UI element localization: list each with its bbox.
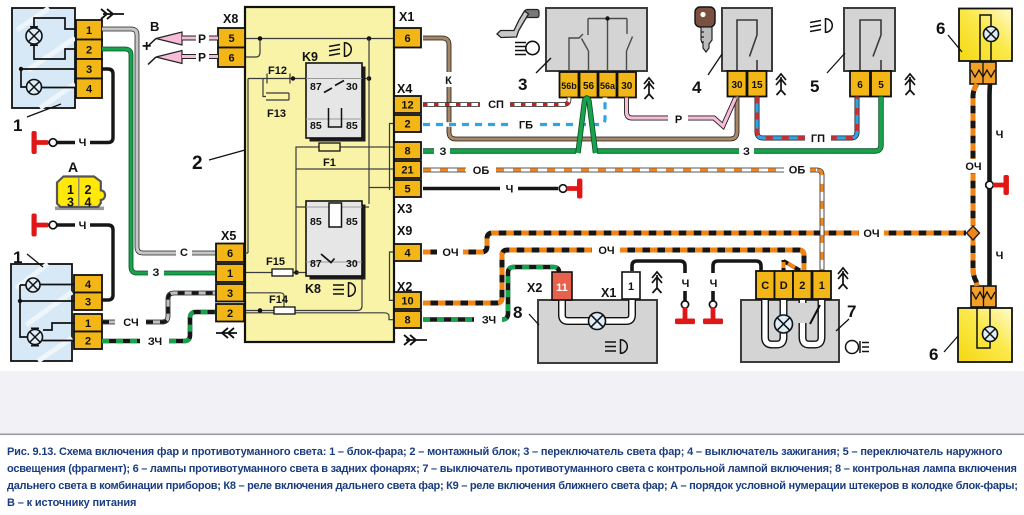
svg-text:1: 1 — [819, 280, 825, 292]
wire ZCh (X2-8 to lamp8 pin 11) — [423, 267, 559, 320]
wire GB white-blue (X4-2 to 56a) — [423, 98, 605, 125]
svg-text:Ч: Ч — [79, 137, 87, 149]
label Ch (ground headlamp1b) — [75, 218, 90, 232]
fog lamp in headlamp 1b — [26, 278, 40, 292]
svg-text:3: 3 — [85, 296, 91, 308]
ground switch 7 — [703, 301, 723, 324]
label OCh right trunk — [859, 226, 884, 240]
label 7 — [836, 302, 856, 331]
label SCh — [117, 315, 145, 329]
svg-text:Х1: Х1 — [399, 10, 414, 24]
svg-text:5: 5 — [810, 77, 819, 96]
svg-text:C: C — [761, 280, 769, 292]
label Ch X4-5 — [502, 182, 517, 196]
svg-text:6: 6 — [227, 248, 233, 260]
headlamp 1b internal wiring — [18, 285, 74, 341]
wire: fuse line F12 at y79 — [248, 74, 369, 84]
svg-text:Ч: Ч — [79, 220, 87, 232]
ground cluster — [675, 301, 695, 324]
svg-text:ЗЧ: ЗЧ — [148, 336, 162, 348]
wire Z green trunk (X4-8 to switch5-5 with tap to 56) — [423, 97, 881, 152]
svg-text:З: З — [440, 146, 447, 158]
svg-text:30: 30 — [346, 258, 358, 270]
ground for headlamp 1b — [32, 214, 57, 237]
svg-text:3: 3 — [86, 64, 92, 76]
svg-text:8: 8 — [513, 303, 522, 322]
tree arrow near switch 7 — [838, 268, 848, 289]
connector X2 label (cluster) — [527, 281, 542, 295]
svg-text:1: 1 — [13, 116, 22, 135]
icon headlight near switch 3 — [515, 41, 539, 54]
svg-text:СП: СП — [488, 99, 504, 111]
label GP — [805, 131, 831, 145]
switch 3 contacts — [569, 16, 633, 71]
svg-text:3: 3 — [227, 288, 233, 300]
svg-text:4: 4 — [86, 83, 93, 95]
svg-text:ОЧ: ОЧ — [598, 245, 614, 257]
lamp high/low beam in headlamp 1b — [28, 328, 43, 345]
svg-text:Х9: Х9 — [397, 224, 412, 238]
svg-text:Ч: Ч — [996, 250, 1004, 262]
connector of rear lamp 6 bottom — [971, 286, 996, 307]
label R upper — [198, 32, 206, 46]
wire R pink lower — [182, 54, 218, 59]
svg-text:F14: F14 — [269, 294, 289, 306]
wire Ch black (headlamp1b pin3 to ground) — [57, 225, 113, 300]
switch 4 contacts — [737, 20, 757, 71]
connector X1 label (cluster) — [601, 286, 616, 300]
connector X1 pin 6 — [394, 28, 421, 48]
headlamp unit 1 (bottom) body — [11, 264, 72, 361]
connector X2 pins 10,8 — [394, 292, 421, 328]
svg-text:ОЧ: ОЧ — [442, 247, 458, 259]
icon high beam in cluster — [605, 340, 627, 354]
figure caption — [7, 446, 1002, 458]
label Ch right lower — [992, 248, 1007, 262]
svg-text:Х2: Х2 — [527, 281, 542, 295]
svg-text:F1: F1 — [323, 157, 336, 169]
svg-text:ОБ: ОБ — [789, 165, 806, 177]
svg-text:ЗЧ: ЗЧ — [482, 315, 496, 327]
wire: internal vertical to relay K8 — [296, 169, 369, 273]
svg-text:6: 6 — [857, 80, 863, 91]
wire: X8-6 stub to +12V rail — [246, 40, 260, 57]
lamp high/low beam in headlamp 1 — [26, 27, 42, 45]
connector of rear lamp 6 top — [970, 62, 996, 84]
svg-text:Р: Р — [198, 51, 206, 65]
label B (to power source) — [150, 19, 159, 34]
connector X5 label — [221, 229, 236, 243]
svg-text:5: 5 — [404, 184, 410, 196]
svg-text:87: 87 — [310, 258, 322, 270]
instrument cluster 8 body — [538, 300, 657, 363]
svg-text:С: С — [180, 247, 188, 259]
wire: X5-3 internal — [246, 293, 284, 310]
svg-text:30: 30 — [621, 81, 633, 92]
connector X1 label — [399, 10, 414, 24]
tree arrow near cluster pin 1 — [652, 272, 662, 293]
direction arrow top left — [101, 9, 124, 19]
mounting block 2 body — [245, 7, 394, 342]
wire Z green (headlamp1 pin2 to X5-1) — [102, 49, 216, 273]
label SP — [483, 97, 509, 111]
wire: internal links right edge (X9-4 to X2-10, X4-2) — [390, 124, 395, 301]
wire K brown (X1-6 to ignition 30) — [423, 38, 737, 139]
wire SCh gray-black (headlamp1b pin1 to X5-3) — [102, 293, 216, 322]
svg-text:Х3: Х3 — [397, 202, 412, 216]
label ZCh right — [476, 313, 502, 327]
fuse F14 line — [246, 278, 362, 314]
svg-text:4: 4 — [404, 248, 411, 260]
svg-text:5: 5 — [878, 80, 884, 91]
headlamp unit 1 (top) body — [12, 8, 75, 108]
svg-text:Х5: Х5 — [221, 229, 236, 243]
label GB — [513, 118, 539, 132]
svg-text:10: 10 — [401, 296, 413, 308]
wire SP white-red (X4-12 to 56b) — [423, 98, 569, 105]
ground for headlamp 1 — [32, 131, 57, 154]
svg-text:Х4: Х4 — [397, 82, 412, 96]
wire ZCh green-black (headlamp1b pin2 to X5-2) — [102, 312, 216, 341]
svg-text:Ч: Ч — [682, 278, 690, 290]
wire Ch (switch7 C to ground) — [713, 261, 761, 301]
fog indicator lamp in switch 7 — [775, 315, 793, 333]
wire: +12V rail inside mounting block (X8-5 to X1-6) — [246, 36, 394, 41]
svg-text:F15: F15 — [266, 256, 285, 268]
plus sign — [142, 38, 151, 55]
switch 3 pins 56b,56,56a,30 — [560, 72, 637, 98]
svg-text:30: 30 — [346, 81, 358, 93]
wire Ch (cluster X1-1 to ground) — [632, 261, 685, 301]
svg-text:З: З — [743, 146, 750, 158]
wire: X5-2 to X2-8 internal — [246, 313, 394, 320]
connector X8 pins 5,6 — [218, 28, 245, 67]
wire OB white-orange (X4-21 to switch7 pin1) — [423, 168, 817, 173]
svg-text:ОЧ: ОЧ — [863, 228, 879, 240]
label 8 — [513, 303, 539, 325]
connector X5 pins 6,1,3,2 — [216, 244, 244, 322]
wire OCh top (X9-4 to rear lamps trunk) — [423, 233, 966, 252]
lamp in rear fog lamp 6 bottom — [983, 327, 998, 342]
label Z (right) — [739, 144, 754, 158]
svg-text:56a: 56a — [600, 81, 616, 91]
svg-text:СЧ: СЧ — [123, 317, 138, 329]
svg-text:D: D — [780, 280, 788, 292]
svg-text:56b: 56b — [561, 81, 577, 91]
svg-text:А: А — [68, 159, 78, 175]
svg-text:6: 6 — [228, 52, 234, 64]
svg-text:F13: F13 — [267, 108, 286, 120]
label 6 bottom — [929, 336, 958, 364]
svg-text:15: 15 — [751, 80, 763, 91]
label OCh center — [594, 243, 619, 257]
steering stalk icon — [497, 10, 539, 38]
lamp in rear fog lamp 6 top — [984, 27, 999, 42]
svg-text:2: 2 — [404, 119, 410, 131]
wire OCh vertical right (trunk to rear lamps) — [973, 84, 977, 286]
power arrow lower — [148, 51, 182, 65]
svg-text:85: 85 — [310, 120, 322, 132]
wire: internal bus X5-6 — [245, 79, 248, 254]
svg-text:4: 4 — [85, 196, 92, 210]
switch 4 pins 30,15 — [728, 71, 767, 97]
icon low beam near K9 — [329, 43, 351, 57]
wire OB vertical to switch7 pin1 — [817, 170, 822, 271]
svg-text:1: 1 — [85, 318, 91, 330]
svg-text:3: 3 — [518, 75, 527, 94]
label Ch switch7 ground — [706, 276, 721, 290]
label 6 top — [936, 19, 962, 52]
svg-text:6: 6 — [929, 345, 938, 364]
label 5 — [810, 53, 845, 96]
wire: vertical feed to relay K9 contact 30 and coil ground to X4-5 — [367, 39, 394, 205]
svg-text:ОЧ: ОЧ — [965, 161, 981, 173]
svg-text:85: 85 — [346, 216, 358, 228]
headlamp 1 internal wiring — [19, 18, 76, 88]
rear fog lamp 6 (bottom) body — [958, 308, 1012, 362]
wire OCh branch (X2-10 to switch7 pin2) — [423, 250, 804, 303]
contact channel 2-1 in switch 7 — [797, 300, 822, 345]
switch 5 body — [844, 8, 895, 71]
label OB left — [468, 163, 494, 177]
pin 1 (white) of cluster — [622, 272, 640, 299]
switch 4 body — [722, 8, 772, 71]
fuse F15 line — [246, 269, 312, 276]
switch 7 pins C,D,2,1 — [756, 271, 831, 299]
connector X9 label — [397, 224, 412, 238]
svg-text:6: 6 — [404, 33, 410, 45]
svg-text:Ч: Ч — [710, 278, 718, 290]
label ZCh (left) — [142, 333, 168, 348]
svg-text:5: 5 — [228, 33, 234, 45]
label Z (near X4-8) — [436, 144, 450, 158]
svg-text:K8: K8 — [305, 282, 321, 296]
connector X4 label — [397, 82, 412, 96]
svg-text:ГП: ГП — [811, 133, 825, 145]
switch 5 contacts — [860, 20, 881, 71]
svg-text:21: 21 — [401, 165, 413, 177]
svg-text:ГБ: ГБ — [519, 120, 533, 132]
svg-text:85: 85 — [346, 120, 358, 132]
svg-text:Х1: Х1 — [601, 286, 616, 300]
wire R pink (switch3-30 to ignition 30) — [627, 98, 736, 127]
label OCh near X9-4 — [438, 245, 463, 259]
label OCh right column — [961, 159, 986, 173]
svg-text:3: 3 — [67, 196, 74, 210]
wire R pink upper — [182, 36, 218, 41]
label Ch right upper — [992, 127, 1007, 141]
svg-text:8: 8 — [404, 146, 410, 158]
power arrow upper — [148, 32, 182, 46]
connector X4 pins 12,2,8,21,5 — [394, 96, 421, 197]
svg-text:4: 4 — [692, 78, 702, 97]
svg-text:K9: K9 — [302, 50, 318, 64]
label K on brown wire — [441, 72, 456, 87]
svg-text:Р: Р — [675, 114, 682, 126]
label R center — [671, 111, 686, 126]
svg-text:1: 1 — [13, 248, 22, 267]
wire Ch black X4-5 to ground — [423, 187, 558, 190]
svg-text:85: 85 — [310, 216, 322, 228]
label 2 (mounting block) — [192, 150, 245, 174]
icon high beam near K8 — [333, 283, 355, 297]
svg-text:30: 30 — [731, 80, 743, 91]
label Z on green wire — [148, 266, 164, 279]
label 1 (bottom headlamp) — [13, 248, 43, 267]
svg-text:56: 56 — [583, 81, 595, 92]
svg-text:6: 6 — [936, 19, 945, 38]
label C on gray wire — [176, 246, 192, 259]
svg-text:7: 7 — [847, 302, 856, 321]
lamp channel C-D in switch 7 — [765, 300, 784, 345]
connector X2 label — [397, 280, 412, 294]
svg-text:12: 12 — [401, 100, 413, 112]
svg-text:1: 1 — [86, 25, 92, 37]
svg-text:87: 87 — [310, 81, 322, 93]
tree arrow near switch 4 — [776, 74, 786, 95]
high beam indicator lamp — [589, 313, 606, 330]
label R lower — [198, 51, 206, 65]
svg-text:ОБ: ОБ — [473, 165, 490, 177]
svg-text:2: 2 — [192, 153, 203, 174]
relay K9 — [306, 63, 366, 142]
connector of headlamp 1: pins 1-4 — [76, 20, 102, 98]
svg-text:8: 8 — [404, 315, 410, 327]
wire C gray (headlamp1 pin1 to X5-6) — [102, 29, 216, 253]
ground for X4-5 — [559, 179, 582, 199]
X5 direction arrow — [216, 328, 237, 338]
svg-text:2: 2 — [86, 44, 92, 56]
svg-text:З: З — [153, 267, 160, 279]
switch 3 body — [546, 8, 647, 71]
bottom page strip — [0, 371, 1024, 435]
fog lamp in headlamp 1 — [27, 80, 42, 95]
svg-text:К: К — [445, 75, 452, 87]
switch 5 pins 6,5 — [850, 71, 891, 97]
fuse F1 box — [296, 143, 394, 169]
svg-text:+: + — [142, 38, 151, 55]
tree arrow near switch 5 — [905, 74, 915, 95]
svg-text:Ч: Ч — [506, 184, 514, 196]
svg-text:1: 1 — [227, 268, 233, 280]
jumper pin D to pin 2 of switch 7 — [784, 260, 801, 271]
wire GP blue-red (ignition 15 to switch5-6) — [757, 97, 857, 139]
icon headlight near switch 5 — [810, 19, 832, 33]
tree arrow near switch 3 — [644, 78, 654, 99]
svg-text:Р: Р — [198, 32, 206, 46]
svg-text:1: 1 — [628, 281, 634, 293]
connector of headlamp 1b: pins 4,3,1,2 — [74, 275, 102, 349]
label 1 (top headlamp) — [13, 104, 61, 135]
lamp channel in cluster 8 — [562, 300, 632, 321]
svg-text:2: 2 — [799, 280, 805, 292]
connector X3 label — [397, 202, 412, 216]
switch 7 body — [741, 300, 839, 362]
wire Ch vertical right (rear lamps ground) — [987, 84, 992, 286]
junction diamond OCh — [967, 226, 980, 240]
label 4 — [692, 54, 722, 97]
label A — [68, 159, 78, 175]
X2 direction arrow — [404, 335, 427, 345]
label Ch cluster ground — [678, 276, 693, 290]
svg-text:2: 2 — [85, 335, 91, 347]
svg-text:В: В — [150, 19, 159, 34]
svg-text:Ч: Ч — [996, 129, 1004, 141]
svg-text:2: 2 — [227, 308, 233, 320]
icon rear fog light — [846, 341, 870, 354]
connector A (pin numbering of headlamp block) — [55, 177, 105, 211]
relay K8 — [306, 201, 366, 280]
ground right column — [986, 175, 1009, 195]
label 3 — [518, 58, 551, 94]
svg-text:Х8: Х8 — [223, 12, 238, 26]
label OB right — [784, 163, 810, 177]
label Ch (ground headlamp1) — [75, 135, 90, 149]
svg-text:11: 11 — [556, 282, 568, 294]
wire Ch black (headlamp1 pin3 to ground) — [57, 69, 113, 143]
wire Z green spike to pin 56 — [578, 98, 596, 153]
pin 11 (red) of cluster — [552, 272, 572, 300]
connector X8 label — [223, 12, 238, 26]
rear fog lamp 6 (top) body — [959, 9, 1012, 62]
svg-text:4: 4 — [85, 279, 92, 291]
svg-text:F12: F12 — [268, 65, 287, 77]
ignition key icon — [695, 7, 715, 52]
connector X9 pin 4 — [394, 244, 421, 261]
fuse F13 — [263, 79, 289, 101]
